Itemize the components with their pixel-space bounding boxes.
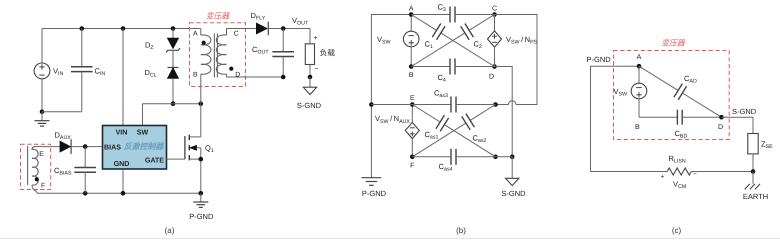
op-amp U1: flyback controller box	[103, 126, 167, 170]
diode D_CL	[168, 68, 179, 104]
capacitor C_OUT	[282, 29, 284, 52]
node E	[410, 102, 415, 107]
wire: outer left line (b)	[371, 15, 411, 178]
wire: top input rail (a)	[42, 28, 201, 30]
node: C_OUT bottom junction	[281, 75, 286, 80]
node D (c)	[719, 115, 724, 120]
svg-text:VIN: VIN	[116, 129, 128, 137]
zener D_Z	[166, 29, 180, 68]
ground: input ground symbol	[41, 112, 43, 121]
node: P-GND junction	[199, 191, 204, 196]
wire: S-GND stub (a)	[309, 77, 311, 87]
wire: aux F lead to bottom rail	[32, 185, 38, 193]
node: junction top rail / VIN pin line	[121, 26, 126, 31]
capacitor C3	[411, 14, 450, 16]
svg-text:+: +	[313, 35, 317, 42]
wire: S-GND stub (b)	[511, 157, 513, 179]
bottom border line	[0, 237, 780, 239]
svg-text:EARTH: EARTH	[743, 192, 768, 201]
ground P-GND (a)	[200, 193, 202, 202]
svg-text:B: B	[409, 72, 414, 79]
svg-text:(b): (b)	[456, 226, 466, 235]
svg-text:负载: 负载	[320, 49, 336, 58]
svg-text:P-GND: P-GND	[587, 55, 612, 64]
svg-text:S-GND: S-GND	[732, 107, 757, 116]
capacitor C_as4	[412, 156, 451, 158]
wire: aux E lead	[36, 146, 61, 148]
transformer aux winding dashed outline	[21, 144, 51, 189]
svg-text:F: F	[41, 183, 45, 190]
transformer phase dot primary (near A)	[202, 41, 206, 45]
svg-text:+: +	[661, 174, 665, 181]
node: aux row right (top)	[493, 102, 498, 107]
svg-text:E: E	[410, 95, 415, 102]
wire: switch node (SW to drain)	[143, 103, 201, 105]
node C (b)	[492, 12, 497, 17]
transistor Q1 (NMOS)	[185, 104, 201, 194]
wire: secondary D lead	[227, 74, 284, 77]
node: load bottom junction	[308, 75, 313, 80]
wire: GND pin to bottom rail	[122, 169, 124, 193]
node: V_IN bottom / input ground junction	[40, 110, 45, 115]
node: GND pin bottom junction	[121, 191, 126, 196]
capacitor C_IN	[81, 29, 83, 67]
wire: input bottom wire	[42, 111, 82, 113]
node B (b)	[409, 64, 414, 69]
source V_SW/N_AUX (diamond)	[405, 105, 419, 157]
node: aux row right (bottom)	[493, 155, 498, 160]
svg-text:变压器: 变压器	[206, 12, 231, 21]
capacitor C2 (diagonal C-B)	[469, 15, 494, 31]
wire: load bottom	[309, 65, 311, 78]
source V_SW/N_PS (diamond)	[488, 15, 502, 67]
svg-text:D: D	[489, 74, 494, 81]
wire: bottom ground rail (a)	[38, 192, 201, 194]
node A (c)	[637, 64, 642, 69]
capacitor C_as1 (diagonal E-BR)	[412, 105, 440, 123]
svg-text:反激控制器: 反激控制器	[124, 142, 165, 151]
svg-text:D: D	[235, 71, 240, 78]
node D (b)	[492, 64, 497, 69]
svg-text:P-GND: P-GND	[189, 212, 214, 221]
wire: Z_SE to earth node	[752, 154, 754, 172]
resistor R_LISN	[591, 171, 668, 173]
transformer aux phase dot (near F)	[35, 177, 39, 181]
capacitor C_BIAS	[84, 147, 86, 168]
svg-text:C: C	[234, 31, 239, 38]
ground S-GND (a)	[303, 87, 316, 94]
svg-text:F: F	[410, 163, 414, 170]
wire: P-GND corner to A and down	[591, 66, 640, 171]
node: switch node / primary B / drain junction	[199, 101, 204, 106]
ground S-GND (b)	[506, 178, 519, 185]
node: junction top rail / C_IN	[80, 26, 85, 31]
node: left line / E-row junction	[369, 102, 374, 107]
transformer aux core line	[27, 146, 29, 185]
svg-text:GND: GND	[114, 160, 130, 168]
svg-text:−: −	[693, 171, 697, 178]
svg-text:BIAS: BIAS	[104, 143, 121, 151]
resistor Z_SE	[748, 134, 758, 154]
node: BIAS / C_BIAS junction	[83, 144, 88, 149]
capacitor C4	[411, 66, 450, 68]
wire: hop over D line	[509, 101, 516, 105]
ground EARTH	[752, 172, 754, 184]
wire: secondary C lead to top	[227, 29, 257, 36]
svg-text:B: B	[193, 71, 198, 78]
source V_IN	[34, 29, 50, 112]
svg-text:(c): (c)	[672, 226, 682, 235]
svg-text:(a): (a)	[165, 226, 175, 235]
transformer T (a) dashed outline	[190, 23, 246, 87]
wire: VIN pin line	[122, 29, 124, 126]
svg-text:B: B	[635, 124, 640, 131]
wire: D to Z_SE	[722, 117, 754, 133]
wire: D drop line to S-GND row	[495, 67, 513, 157]
ground P-GND (b)	[362, 177, 382, 179]
svg-text:P-GND: P-GND	[362, 189, 387, 198]
capacitor C_AD (diagonal A-D)	[639, 66, 678, 90]
wire: C to outer right line down to aux row	[495, 15, 538, 105]
wire: V_OUT down to load	[309, 29, 311, 44]
svg-text:D: D	[718, 124, 723, 131]
capacitor C_BD	[639, 116, 677, 118]
svg-text:S-GND: S-GND	[297, 101, 322, 110]
svg-text:E: E	[39, 151, 44, 158]
resistor load (负载)	[305, 44, 314, 65]
node: earth junction	[751, 169, 756, 174]
svg-text:GATE: GATE	[145, 156, 164, 164]
svg-text:A: A	[409, 6, 414, 13]
diode D_AUX	[60, 139, 103, 154]
source V_SW (b)	[403, 15, 419, 67]
wire: GATE to Q1 gate	[167, 158, 185, 160]
svg-text:C: C	[492, 6, 497, 13]
node: junction top rail / clamp branch	[171, 26, 176, 31]
node: Q1 source junction	[199, 157, 204, 162]
node: V_OUT junction	[281, 26, 286, 31]
capacitor C_as3	[371, 104, 451, 106]
svg-text:变压器: 变压器	[661, 38, 686, 47]
capacitor C1 (diagonal A-D)	[411, 15, 436, 31]
node F	[410, 155, 415, 160]
transformer core lines	[213, 34, 215, 78]
wire: primary B lead down	[200, 74, 202, 104]
svg-text:A: A	[637, 54, 642, 61]
node A (b)	[409, 12, 414, 17]
node: clamp bottom / switch-node wire junction	[171, 101, 176, 106]
diode D_FLY	[256, 22, 310, 36]
source V_SW (c)	[631, 66, 647, 117]
svg-text:−: −	[314, 66, 318, 73]
svg-text:S-GND: S-GND	[501, 189, 526, 198]
svg-text:A: A	[193, 31, 198, 38]
capacitor C_as2 (diagonal TR-F)	[470, 105, 495, 121]
transformer phase dot secondary (near D)	[229, 67, 233, 71]
transformer model dashed outline (c)	[614, 51, 730, 140]
node: S-GND line junction	[510, 155, 515, 160]
wire: hop to node	[496, 104, 509, 106]
svg-text:SW: SW	[137, 129, 149, 137]
transformer primary winding A-B	[200, 29, 202, 36]
node: C_BIAS bottom junction	[83, 191, 88, 196]
transformer aux winding E-F	[32, 147, 38, 186]
transformer secondary winding C-D	[216, 35, 226, 74]
